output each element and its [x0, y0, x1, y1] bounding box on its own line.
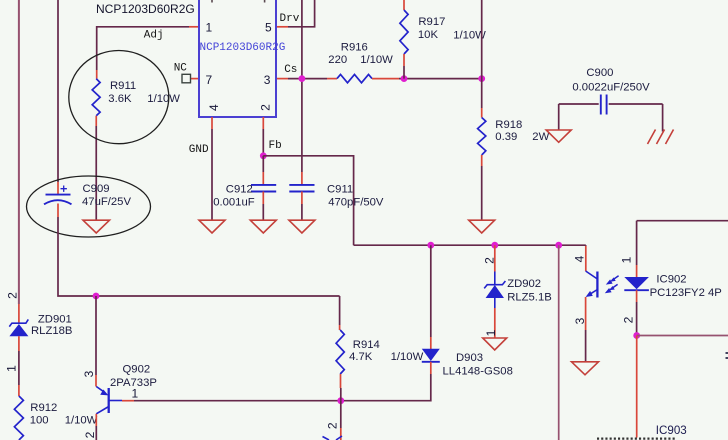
wire: Fb net horizontal and down to mid rail [263, 156, 353, 245]
opto light arrows [605, 276, 619, 293]
capacitor C911 [289, 185, 314, 204]
ground below R918 [469, 220, 495, 233]
optocoupler IC902 phototransistor [586, 271, 598, 298]
NC no-connect square [182, 74, 191, 83]
wire: C900 left down [558, 104, 560, 130]
wire: C900 right down [662, 104, 664, 132]
node: junction D903 [427, 242, 434, 249]
wire: Cs net pin3 to R916 [288, 78, 327, 80]
svg-text:C900: C900 [586, 67, 613, 79]
pin stub: IC pin 3 Cs [276, 78, 288, 80]
svg-text:R912: R912 [30, 402, 57, 414]
wire: Fb junction down to C912 [262, 156, 264, 172]
svg-text:2W: 2W [532, 131, 549, 143]
svg-text:NCP1203D60R2G: NCP1203D60R2G [96, 2, 195, 16]
ground below C911 [289, 220, 315, 233]
svg-text:RLZ5.1B: RLZ5.1B [507, 292, 552, 304]
wire: opto pin4 corner from rail [585, 244, 587, 247]
node: junction ZD902 [491, 242, 498, 249]
svg-text:1/10W: 1/10W [147, 93, 180, 105]
svg-text:NCP1203D60R2G: NCP1203D60R2G [200, 42, 286, 54]
node: junction opto feed [555, 242, 562, 249]
wire: Fb pin 2 lead [262, 117, 264, 129]
diode D903 [422, 349, 440, 362]
capacitor C909 (electrolytic) [44, 182, 72, 217]
svg-text:2: 2 [83, 431, 97, 438]
pin stub: opto pin 3 [585, 297, 587, 330]
svg-text:4: 4 [573, 255, 587, 262]
capacitor C912 [251, 172, 276, 204]
annotation ellipse around C909 [27, 176, 151, 237]
svg-text:R917: R917 [418, 16, 445, 28]
wire: R917 bottom to junction [403, 66, 405, 79]
zener diode ZD901 [9, 304, 28, 351]
svg-text:2: 2 [622, 316, 636, 323]
svg-text:4.7K: 4.7K [349, 351, 373, 363]
pin stub: IC pin 1 [189, 26, 199, 28]
wire: mid rail y=245 [354, 244, 586, 246]
wire: vertical down from opto feed junction [558, 245, 560, 440]
svg-text:4: 4 [207, 104, 221, 111]
svg-text:1: 1 [5, 365, 19, 372]
wire: opto LED pin1 top corner to right edge [637, 220, 728, 222]
capacitor C900 [559, 95, 663, 115]
IC903 dotted boundary [597, 438, 676, 440]
IC U900 NCP1203D60R2G box [199, 0, 276, 117]
svg-text:ZD901: ZD901 [38, 313, 72, 325]
text remnant right edge [726, 353, 728, 358]
svg-text:1: 1 [206, 21, 213, 35]
svg-text:470pF/50V: 470pF/50V [328, 196, 384, 208]
wire: GND pin 4 lead [211, 117, 213, 129]
pin stub: Q902 base [122, 400, 134, 402]
node: junction R914 bottom [337, 397, 344, 404]
svg-text:Fb: Fb [269, 140, 282, 152]
ground below ZD902 [483, 338, 507, 350]
wire: C909 top vertical net [57, 0, 59, 182]
svg-text:C911: C911 [327, 184, 353, 196]
wire: C909 bottom to Q902 net [58, 217, 340, 296]
IC top edge pin remnant marks [212, 0, 265, 3]
svg-text:0.39: 0.39 [495, 131, 517, 143]
node: junction Cs/C911 [299, 75, 306, 82]
wire: R914 top from y296 rail [339, 296, 341, 325]
wire: ZD902 from mid rail [494, 245, 496, 271]
node: junction LED pin2 [633, 332, 640, 339]
node: junction at R911/Q902 base net [93, 293, 100, 300]
svg-text:3: 3 [573, 317, 587, 324]
wire: Drv net from pin5 [288, 0, 315, 27]
wire: junction to right edge [637, 335, 728, 337]
svg-text:R914: R914 [353, 339, 380, 351]
transistor Q902 (PNP) [96, 387, 122, 414]
svg-text:220: 220 [328, 54, 347, 66]
node: junction at R918 [478, 75, 485, 82]
resistor R912 [14, 385, 23, 440]
annotation circle around R911 [69, 51, 169, 144]
resistor R917 [400, 0, 408, 66]
svg-text:3: 3 [264, 73, 271, 87]
pin: IC903 long pin down [636, 336, 638, 438]
svg-text:Cs: Cs [284, 64, 297, 76]
svg-text:IC903: IC903 [656, 424, 687, 437]
svg-text:0.001uF: 0.001uF [213, 196, 255, 208]
svg-text:2: 2 [326, 422, 340, 429]
resistor R916 [337, 74, 399, 82]
svg-text:2: 2 [483, 257, 497, 264]
svg-text:PC123FY2 4P: PC123FY2 4P [650, 287, 722, 299]
pin stub: LED pin 2 [636, 290, 638, 302]
wire: left vertical net to ZD901 [18, 0, 20, 304]
svg-text:C909: C909 [83, 183, 110, 195]
svg-text:1/10W: 1/10W [391, 351, 424, 363]
svg-text:5: 5 [265, 21, 272, 35]
wire: R911 to ground [95, 126, 97, 220]
ground below opto pin 3 [572, 362, 599, 375]
ground below R911 [83, 220, 110, 233]
pin stub: IC pin 5 [276, 26, 288, 28]
wire: C912 to ground [262, 204, 264, 220]
wire: below R914 junction to bottom edge [340, 401, 342, 428]
partial symbol at bottom edge [323, 436, 343, 440]
wire: Q902 collector down [95, 414, 97, 426]
wire: ZD901 anode to R912 [18, 351, 20, 385]
svg-text:2: 2 [6, 292, 20, 299]
svg-text:RLZ18B: RLZ18B [31, 325, 72, 337]
resistor R911 [92, 70, 100, 126]
wire: C911 to ground [301, 204, 303, 220]
svg-text:47uF/25V: 47uF/25V [82, 196, 131, 208]
optocoupler IC902 LED [624, 277, 649, 290]
wire: C911 vertical net from top [301, 0, 303, 172]
earth ground right of C900 [648, 130, 674, 145]
wire: R918 bottom to ground [481, 166, 483, 220]
wire: junction down to Q902 emitter [95, 296, 97, 375]
svg-text:LL4148-GS08: LL4148-GS08 [443, 365, 513, 377]
svg-text:Drv: Drv [280, 13, 300, 25]
svg-text:NC: NC [174, 63, 188, 75]
svg-text:Q902: Q902 [123, 363, 151, 375]
ground below pin 4 [199, 220, 225, 233]
svg-text:R918: R918 [495, 119, 522, 131]
svg-text:100: 100 [30, 415, 49, 427]
wire: Cs net R916 to R918 line [399, 78, 482, 80]
svg-text:R911: R911 [110, 80, 136, 92]
resistor R918 [478, 108, 486, 166]
svg-text:3.6K: 3.6K [108, 93, 132, 105]
svg-text:1/10W: 1/10W [65, 415, 98, 427]
svg-text:10K: 10K [418, 29, 439, 41]
svg-text:2: 2 [259, 104, 273, 111]
wire: R918 top vertical [481, 0, 483, 108]
wire: base rail y=400.7 [134, 400, 341, 402]
resistor R914 [336, 325, 344, 388]
svg-text:D903: D903 [456, 352, 483, 364]
ground triangle left of C900 [546, 130, 571, 142]
svg-text:1: 1 [484, 329, 498, 336]
svg-text:1/10W: 1/10W [360, 54, 393, 66]
svg-text:1: 1 [132, 387, 139, 401]
ground below C912 [250, 220, 276, 233]
svg-text:R916: R916 [341, 41, 368, 53]
svg-text:3: 3 [82, 370, 96, 377]
node: Fb junction [260, 152, 267, 159]
wire: D903 bottom to base rail [344, 374, 431, 401]
svg-text:IC902: IC902 [656, 274, 686, 286]
svg-text:C912: C912 [226, 184, 253, 196]
node: junction at R917 [401, 75, 408, 82]
pin stub: IC pin 7 to NC square [191, 78, 200, 80]
wire: D903 from mid rail down [430, 245, 432, 337]
svg-text:7: 7 [206, 73, 213, 87]
svg-text:GND: GND [189, 144, 209, 156]
svg-text:Adj: Adj [144, 29, 164, 41]
svg-text:0.0022uF/250V: 0.0022uF/250V [572, 82, 650, 94]
wire: C911 upper lead [301, 172, 303, 184]
svg-text:1: 1 [620, 256, 634, 263]
zener diode ZD902 [484, 272, 505, 309]
svg-text:ZD902: ZD902 [507, 278, 541, 290]
wire: Adj net from pin1 to R911 [97, 27, 189, 70]
